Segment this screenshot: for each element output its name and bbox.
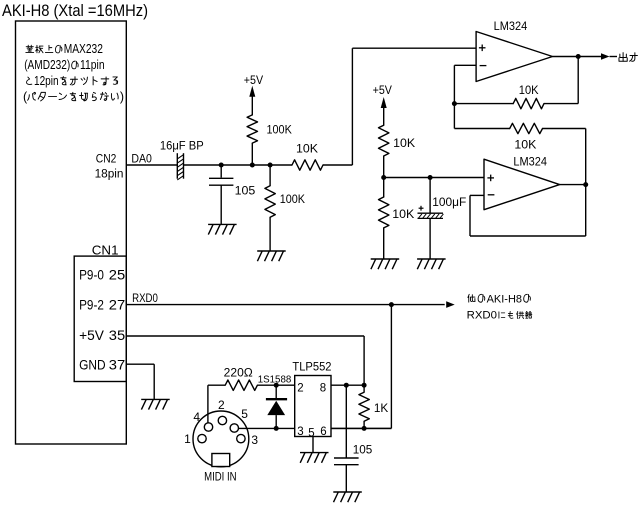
capacitor 16uF BP (bipolar electrolytic) — [176, 153, 178, 179]
ground under 100uF — [417, 258, 446, 260]
node dot 1K top — [362, 383, 367, 388]
note line 2: kana の — [72, 61, 79, 69]
svg-text:TLP552: TLP552 — [292, 360, 331, 374]
svg-text:100K: 100K — [267, 125, 293, 137]
connector CN1 box — [74, 256, 126, 381]
capacitor 100uF (electrolytic, + top) — [418, 212, 444, 214]
wire divider to U2 +input — [384, 177, 484, 179]
wire cap105-2 bottom lead — [345, 465, 347, 492]
capacitor 105 (0.1uF) #2 — [334, 457, 359, 459]
ground under R7 — [371, 258, 400, 260]
ground TLP pin5 — [300, 452, 329, 454]
resistor 10K R6 (divider top) — [379, 125, 389, 156]
svg-text:11pin: 11pin — [80, 58, 105, 72]
svg-text:100μF: 100μF — [432, 197, 466, 209]
wire fb right — [544, 103, 578, 105]
wire 100uF top lead — [429, 178, 431, 214]
svg-text:100K: 100K — [280, 194, 306, 206]
wire R5 right lead — [543, 128, 586, 130]
wire MIDI pin5 to TLP pin3 — [239, 427, 295, 429]
svg-text:6: 6 — [320, 426, 326, 438]
label 出力 (output) — [619, 53, 627, 62]
svg-text:LM324: LM324 — [494, 19, 528, 33]
svg-text:16μF BP: 16μF BP — [160, 141, 204, 153]
wire R3 to opamp riser — [323, 164, 352, 166]
ground CN1 GND — [141, 398, 170, 400]
wire U1 inverting input — [454, 64, 476, 66]
svg-text:10K: 10K — [296, 144, 318, 156]
resistor 10K R7 (divider bottom) — [379, 197, 389, 228]
note line 1: kanji 基板上の — [26, 45, 34, 52]
note line 4: パターンを切らない — [28, 92, 36, 100]
node dot cap105-2 branch — [344, 383, 349, 388]
wire 220ohm to TLP pin2 — [257, 384, 294, 386]
wire cap105-1 top lead — [220, 165, 222, 178]
U1 + input sign — [479, 47, 486, 49]
wire 1K bottom lead — [363, 421, 365, 429]
wire 100uF bottom lead — [429, 218, 431, 259]
wire 220 ohm to MIDI pin4 — [208, 384, 225, 386]
node dot diode top — [274, 383, 279, 388]
svg-text:105: 105 — [353, 445, 373, 457]
wire +5V net from pin35 — [126, 335, 364, 337]
ground under R2 — [257, 250, 286, 252]
wire 1K top lead — [363, 385, 365, 392]
svg-text:+5V: +5V — [373, 85, 393, 97]
svg-text:LM324: LM324 — [513, 155, 547, 169]
wire R2 bottom lead — [269, 217, 271, 251]
svg-text:4: 4 — [193, 410, 200, 424]
svg-text:2: 2 — [218, 398, 225, 412]
wire U2 inverting input / feedback — [470, 194, 484, 196]
label にも供給 line2b — [499, 312, 505, 318]
node dot U1 feedback — [452, 101, 457, 106]
resistor 10K R4 (U1 feedback) — [513, 98, 544, 108]
node dot divider — [381, 175, 386, 180]
svg-text:(AMD232): (AMD232) — [24, 58, 70, 72]
svg-text:27: 27 — [109, 298, 125, 313]
svg-text:DA0: DA0 — [131, 154, 152, 166]
wire cap105-1 bottom lead — [220, 185, 222, 224]
node dot diode bottom — [274, 426, 279, 431]
MIDI pin 2 hole — [218, 416, 226, 424]
resistor 100K R2 (to ground) — [265, 186, 275, 217]
wire U2 output — [560, 184, 586, 186]
node dot 100uF tap — [428, 175, 433, 180]
svg-text:3: 3 — [297, 426, 303, 438]
node dot U2 output — [583, 182, 588, 187]
resistor 220 ohm — [225, 380, 257, 390]
svg-text:+5V: +5V — [79, 328, 104, 343]
note line 3: をカットする — [61, 77, 67, 85]
op-amp U2 LM324 (bottom) — [484, 159, 560, 210]
svg-text:18pin: 18pin — [95, 169, 124, 181]
diode 1S1588 (cathode up) — [275, 385, 277, 398]
node dot U1 output — [576, 54, 581, 59]
wire R7 bottom lead — [383, 228, 385, 259]
resistor 100K R1 (pull-up) — [247, 115, 257, 143]
resistor 10K R3 (series) — [292, 160, 323, 170]
wire R1 bottom lead — [251, 143, 253, 165]
arrow RXD0 to other AKI-H8 — [446, 301, 455, 308]
wire main node row — [184, 164, 293, 166]
svg-text:12pin: 12pin — [34, 74, 59, 88]
wire fb left — [454, 103, 513, 105]
svg-text:2: 2 — [297, 383, 303, 395]
resistor 10K R5 (U2 to U1 node) — [510, 123, 543, 133]
label の line1c — [524, 294, 531, 302]
svg-text:1: 1 — [184, 432, 191, 446]
svg-text:5: 5 — [241, 407, 248, 421]
svg-text:+5V: +5V — [244, 75, 264, 87]
svg-text:P9-0: P9-0 — [79, 267, 104, 282]
svg-text:3: 3 — [251, 433, 258, 447]
connector MIDI IN DIN5 circle — [193, 411, 249, 467]
wire R5 left lead — [453, 104, 455, 129]
wire R7 top lead — [383, 178, 385, 198]
wire TLP pin5 to ground — [312, 437, 314, 453]
node dot 1K bottom — [362, 426, 367, 431]
svg-text:CN2: CN2 — [96, 154, 117, 166]
svg-text:1S1588: 1S1588 — [258, 375, 292, 386]
svg-text:105: 105 — [235, 186, 256, 198]
note line 3: kana と — [27, 77, 32, 84]
svg-text:CN1: CN1 — [92, 244, 119, 258]
svg-text:P9-2: P9-2 — [79, 298, 104, 313]
svg-text:8: 8 — [320, 383, 326, 395]
wire GND from pin37 — [126, 363, 154, 365]
power +5V arrow #2 — [381, 97, 387, 108]
U2 - input sign — [488, 194, 495, 196]
AKI-H8 board box — [16, 21, 127, 444]
svg-text:10K: 10K — [514, 140, 536, 152]
svg-text:25: 25 — [109, 267, 125, 282]
capacitor 105 (0.1uF) #1 — [209, 177, 233, 179]
output arrow 出力 — [601, 53, 610, 60]
svg-text:RXD0: RXD0 — [467, 310, 497, 322]
U2 + input sign — [487, 177, 494, 179]
svg-text:37: 37 — [109, 358, 125, 373]
svg-text:MIDI IN: MIDI IN — [204, 471, 237, 483]
svg-text:RXD0: RXD0 — [132, 293, 158, 305]
svg-text:10K: 10K — [392, 209, 414, 221]
svg-text:1K: 1K — [374, 403, 389, 415]
U1 - input sign — [480, 65, 487, 67]
wire DA0 from CN2 pin18 — [126, 164, 177, 166]
svg-text:MAX232: MAX232 — [64, 42, 103, 56]
wire cap105-2 top lead — [345, 385, 347, 458]
wire R6 bottom lead — [383, 156, 385, 178]
node junction dot A2 — [250, 163, 255, 168]
label + of 100uF — [419, 207, 424, 209]
MIDI notch key — [212, 454, 230, 467]
svg-text:10K: 10K — [393, 138, 415, 150]
wire TLP pin8 to +5V — [331, 384, 364, 386]
svg-text:): ) — [120, 90, 124, 104]
wire RXD0 net — [126, 304, 444, 306]
svg-text:GND: GND — [79, 358, 106, 373]
MIDI pin 3 hole — [237, 434, 245, 442]
svg-text:10K: 10K — [519, 85, 539, 97]
node junction dot A3 — [268, 163, 273, 168]
wire RXD0 down to TLP552 pin6 — [390, 305, 392, 429]
svg-text:220Ω: 220Ω — [224, 367, 254, 379]
wire U1 output to feedback — [577, 57, 579, 104]
svg-text:35: 35 — [109, 328, 125, 343]
wire R2 top lead — [269, 165, 271, 186]
op-amp U1 LM324 (top) — [476, 32, 552, 82]
MIDI pin 1 hole — [198, 434, 206, 442]
node junction dot A1 — [219, 163, 224, 168]
optocoupler TLP552 box — [295, 376, 331, 437]
resistor 1K (pull-up) — [359, 392, 369, 421]
wire TLP pin6 row — [331, 427, 391, 429]
node dot RXD0 branch — [389, 302, 394, 307]
power +5V arrow #1 — [249, 86, 255, 97]
MIDI pin 4 hole — [204, 423, 212, 431]
svg-text:5: 5 — [308, 428, 314, 440]
svg-text:AKI-H8 (Xtal =16MHz): AKI-H8 (Xtal =16MHz) — [2, 2, 148, 20]
ground under cap105-2 — [333, 491, 362, 493]
label 他のAKI-H8の line1a — [468, 294, 475, 302]
MIDI pin 5 hole — [230, 424, 238, 432]
svg-text:AKI-H8: AKI-H8 — [487, 293, 522, 305]
ground under cap105-1 — [208, 223, 237, 225]
wire U1 output — [553, 56, 602, 58]
